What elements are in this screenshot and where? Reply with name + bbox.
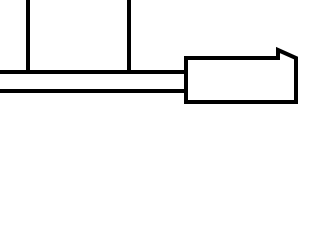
wire V2 (right vertical lead) <box>127 0 131 74</box>
wire H2 (lower horizontal bus) <box>0 89 187 93</box>
component U1 (flag-notched box outline) <box>186 50 296 102</box>
wire V1 (left vertical lead) <box>26 0 30 74</box>
wire H1 (upper horizontal bus) <box>0 70 187 74</box>
